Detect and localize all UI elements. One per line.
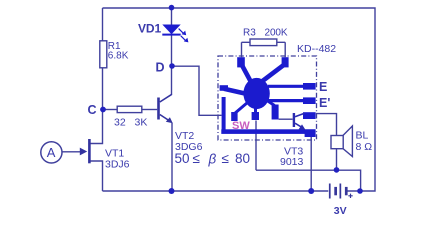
svg-text:32: 32 xyxy=(114,117,126,129)
svg-text:3K: 3K xyxy=(135,117,148,129)
svg-text:D: D xyxy=(156,61,165,75)
svg-text:200K: 200K xyxy=(265,27,288,38)
svg-text:50: 50 xyxy=(175,151,190,166)
svg-text:BL: BL xyxy=(356,130,369,142)
svg-text:≤: ≤ xyxy=(222,151,229,166)
svg-text:E': E' xyxy=(319,96,330,110)
svg-text:SW: SW xyxy=(232,120,250,132)
svg-text:6.8K: 6.8K xyxy=(108,51,129,62)
svg-text:8 Ω: 8 Ω xyxy=(356,141,373,153)
svg-text:VD1: VD1 xyxy=(138,22,161,36)
svg-text:≤: ≤ xyxy=(193,151,200,166)
svg-text:3V: 3V xyxy=(334,205,347,217)
svg-text:E: E xyxy=(319,80,327,94)
svg-text:KD--482: KD--482 xyxy=(297,43,336,55)
svg-text:C: C xyxy=(88,103,97,117)
svg-text:A: A xyxy=(47,145,56,160)
svg-text:80: 80 xyxy=(235,151,250,166)
svg-text:9013: 9013 xyxy=(280,156,304,168)
svg-text:β: β xyxy=(208,152,217,167)
svg-text:R3: R3 xyxy=(243,27,256,38)
svg-text:3DJ6: 3DJ6 xyxy=(105,159,130,171)
